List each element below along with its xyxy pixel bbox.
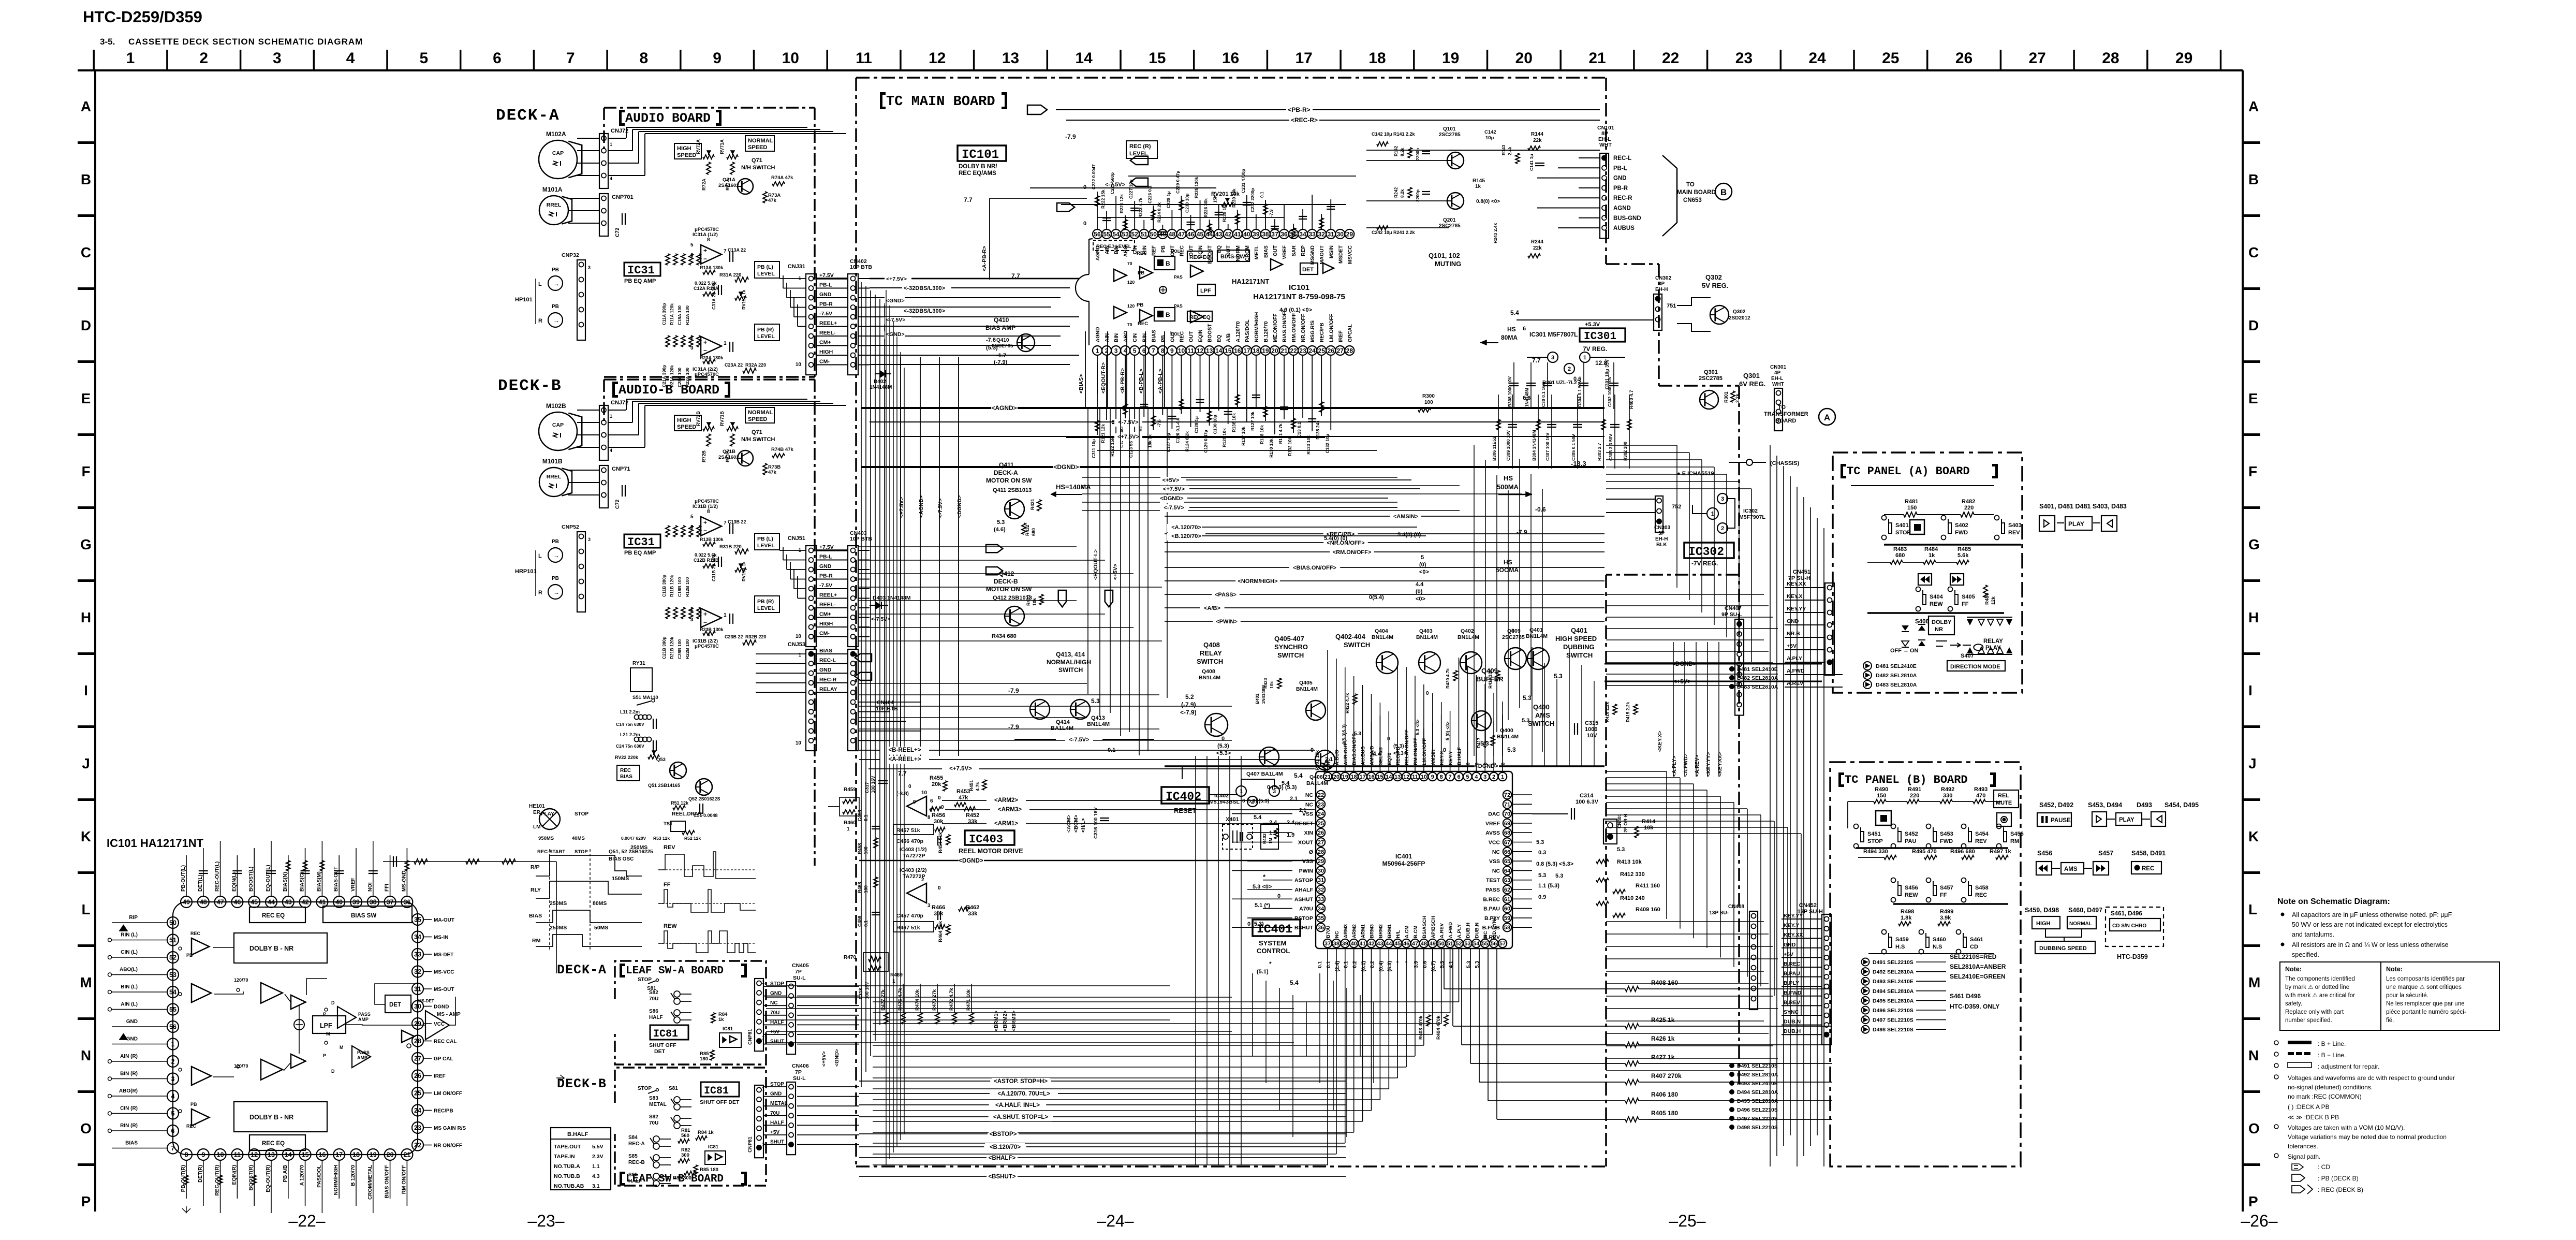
svg-text:6: 6 — [493, 50, 502, 67]
svg-text:1: 1 — [1096, 347, 1099, 354]
svg-text:MSGND: MSGND — [1310, 245, 1316, 265]
svg-text:17: 17 — [1296, 50, 1313, 67]
svg-text:1000: 1000 — [1585, 726, 1597, 733]
svg-text:3: 3 — [928, 903, 931, 909]
svg-text:12: 12 — [1403, 774, 1409, 780]
pin row IC101 bottom (pins 1-28) — [1093, 346, 1102, 355]
svg-text:R/P: R/P — [531, 864, 540, 870]
svg-text:22k: 22k — [1533, 138, 1542, 143]
svg-text:1: 1 — [798, 652, 801, 658]
wire — [858, 288, 870, 289]
border frame: left edge — [94, 70, 96, 1212]
D403 diode — [870, 605, 888, 606]
svg-text:<RM.ON/OFF>: <RM.ON/OFF> — [1333, 549, 1372, 556]
resistor R71A — [730, 162, 734, 174]
transistor Q53 — [670, 762, 686, 779]
svg-text:50: 50 — [169, 920, 176, 927]
wire — [858, 569, 870, 570]
svg-text:<DGND>: <DGND> — [956, 495, 963, 518]
svg-text:30: 30 — [1337, 230, 1344, 238]
capacitor C23A — [729, 614, 730, 624]
svg-text:K: K — [2248, 828, 2259, 844]
svg-text:R400 4.7: R400 4.7 — [1629, 390, 1634, 409]
svg-text:RIN: RIN — [1142, 333, 1147, 342]
svg-text:6: 6 — [171, 1128, 175, 1135]
svg-text:28: 28 — [2102, 50, 2119, 67]
svg-text:AUDIO BOARD: AUDIO BOARD — [625, 111, 711, 126]
svg-text:13P SU-: 13P SU- — [1709, 910, 1729, 916]
svg-text:IC101: IC101 — [1289, 283, 1309, 292]
wire — [858, 617, 870, 618]
svg-text:MSDET: MSDET — [1338, 245, 1344, 264]
svg-text:1: 1 — [1501, 774, 1504, 780]
svg-text:G: G — [2248, 536, 2260, 552]
svg-text:+: + — [703, 339, 707, 346]
capacitor C23A — [729, 342, 730, 352]
svg-text:C311 10μ: C311 10μ — [1091, 439, 1096, 458]
board outline [TC MAIN BOARD] — [856, 77, 1606, 79]
svg-text:RV11B 1k: RV11B 1k — [741, 561, 746, 581]
svg-text:3: 3 — [1114, 347, 1118, 354]
wire — [1280, 580, 1605, 581]
svg-text:<A/B>: <A/B> — [1204, 605, 1220, 611]
svg-text:5.4: 5.4 — [1290, 979, 1299, 986]
svg-text:M101A: M101A — [542, 186, 563, 193]
box REL MUTE — [1994, 790, 2019, 808]
svg-text:EH-H: EH-H — [1655, 287, 1668, 293]
board outline [AUDIO-B BOARD] — [604, 378, 815, 381]
svg-text:C223 560p: C223 560p — [1110, 172, 1115, 194]
svg-text:-7.9: -7.9 — [1269, 209, 1274, 217]
svg-text:LEVEL: LEVEL — [757, 543, 775, 549]
svg-text:pour la sécurité.: pour la sécurité. — [2386, 993, 2428, 999]
svg-text:TC PANEL (A) BOARD: TC PANEL (A) BOARD — [1847, 465, 1970, 478]
svg-text:R144: R144 — [1531, 132, 1543, 137]
svg-text:R453: R453 — [956, 789, 970, 795]
svg-text:10V: 10V — [1587, 733, 1597, 739]
svg-text:REC/PB: REC/PB — [434, 1108, 453, 1114]
svg-text:PASS: PASS — [357, 1050, 370, 1055]
svg-text:25: 25 — [1318, 821, 1324, 827]
IC402 label — [1161, 787, 1209, 804]
op-amp/pin row IC101 top (pins 56-29) — [1093, 229, 1102, 239]
signal arrows mid — [986, 545, 1003, 552]
svg-text:Q411: Q411 — [999, 461, 1014, 469]
svg-text:HIGH: HIGH — [677, 145, 691, 152]
IC101 label — [958, 145, 1006, 161]
svg-text:23: 23 — [1299, 347, 1306, 354]
svg-text:R51 12k: R51 12k — [671, 800, 689, 806]
wire bundle: verticals between band and IC401 right — [1532, 647, 1533, 766]
svg-text:REC/PB: REC/PB — [1395, 747, 1401, 765]
DGND bus — [859, 860, 1315, 862]
svg-text:28: 28 — [414, 1038, 421, 1045]
svg-text:BS/ASCH: BS/ASCH — [1422, 916, 1427, 938]
svg-text:Q408: Q408 — [1202, 668, 1215, 675]
svg-text:REC: REC — [2142, 866, 2154, 872]
svg-text:RELAY.ON/OFF: RELAY.ON/OFF — [1404, 730, 1410, 765]
svg-text:20: 20 — [1515, 50, 1533, 67]
svg-text:D498 SEL2210S: D498 SEL2210S — [1873, 1027, 1913, 1033]
svg-text:SU-L: SU-L — [793, 1075, 806, 1082]
svg-text:BN1L4M: BN1L4M — [1416, 634, 1438, 640]
svg-text:3: 3 — [1721, 496, 1724, 502]
wire — [797, 1086, 859, 1087]
svg-text:AMS: AMS — [1535, 711, 1550, 719]
wire — [1368, 542, 1605, 543]
svg-text:10: 10 — [1421, 774, 1427, 780]
svg-text:5.3: 5.3 — [997, 519, 1005, 526]
svg-text:GND: GND — [1613, 176, 1627, 182]
svg-text:no-signal (detuned) conditions: no-signal (detuned) conditions. — [2288, 1084, 2373, 1091]
svg-text:0: 0 — [938, 885, 941, 891]
svg-text:NOI: NOI — [367, 882, 373, 892]
svg-text:NC: NC — [1492, 849, 1500, 855]
svg-text:11: 11 — [1412, 774, 1418, 780]
svg-text:C130 10μ: C130 10μ — [1213, 415, 1218, 434]
svg-text:R414: R414 — [1642, 819, 1656, 825]
svg-text:EQ-OUT(L): EQ-OUT(L) — [266, 865, 271, 892]
wire — [797, 1096, 859, 1097]
svg-text:HTC-D359: HTC-D359 — [2117, 953, 2148, 960]
svg-text:39: 39 — [1342, 941, 1348, 947]
legend VOM — [2274, 1125, 2278, 1129]
inner box LPF — [313, 1016, 346, 1033]
svg-text:15: 15 — [1377, 774, 1383, 780]
svg-text:<+7.5V>: <+7.5V> — [949, 766, 972, 772]
svg-text:38: 38 — [1262, 230, 1269, 238]
svg-text:2SC2785: 2SC2785 — [1439, 132, 1461, 138]
svg-text:C72: C72 — [615, 227, 621, 237]
svg-text:26: 26 — [1955, 50, 1973, 67]
svg-text:3: 3 — [171, 1075, 175, 1083]
svg-text:20k: 20k — [932, 781, 941, 787]
svg-text:A.120/70: A.120/70 — [1235, 321, 1241, 342]
bullet 2 — [2281, 943, 2285, 946]
svg-text:120/70: 120/70 — [234, 1063, 248, 1069]
svg-text:S405: S405 — [1962, 594, 1975, 600]
svg-text:C141 1μ: C141 1μ — [1529, 154, 1534, 171]
svg-text:: PB (DECK B): : PB (DECK B) — [2318, 1175, 2359, 1182]
svg-text:D496 SEL2210S: D496 SEL2210S — [1737, 1107, 1778, 1113]
svg-text:C314: C314 — [1580, 793, 1594, 799]
svg-text:39: 39 — [1253, 230, 1260, 238]
svg-text:33: 33 — [414, 951, 421, 958]
svg-text:5: 5 — [690, 514, 694, 520]
+7.5V bus — [870, 436, 1605, 437]
svg-text:20: 20 — [1333, 774, 1339, 780]
svg-text:9: 9 — [713, 50, 722, 67]
svg-text:NC: NC — [1483, 931, 1489, 938]
svg-text:XOUT: XOUT — [1298, 840, 1314, 846]
svg-text:N.S: N.S — [1933, 944, 1942, 950]
svg-text:<A.120/70. 70U=L>: <A.120/70. 70U=L> — [997, 1091, 1050, 1097]
svg-text:KEY.Y: KEY.Y — [1448, 751, 1454, 765]
svg-text:CN401: CN401 — [1617, 814, 1622, 828]
svg-text:49: 49 — [1430, 941, 1436, 947]
header TC MAIN BOARD — [880, 92, 886, 109]
svg-text:CM+: CM+ — [819, 340, 831, 346]
svg-text:STOP: STOP — [1895, 530, 1911, 536]
svg-text:NC: NC — [1305, 801, 1314, 808]
svg-text:R32A 220: R32A 220 — [745, 362, 766, 368]
svg-text:HIGH SPEED: HIGH SPEED — [1555, 635, 1597, 643]
svg-text:0: 0 — [1426, 691, 1429, 696]
svg-text:2SC2785: 2SC2785 — [1502, 634, 1525, 640]
svg-text:→: → — [553, 280, 560, 287]
svg-text:0 (5.3): 0 (5.3) — [1247, 921, 1264, 927]
legend voltages — [2274, 1075, 2278, 1079]
wires CN101 area — [1366, 150, 1449, 151]
svg-text:40MS: 40MS — [572, 836, 585, 841]
transistor Q52 — [696, 779, 712, 795]
svg-text:7.7: 7.7 — [898, 770, 907, 777]
svg-text:-7.5V: -7.5V — [819, 582, 832, 589]
svg-text:AUB.OUT: AUB.OUT — [1343, 743, 1349, 765]
svg-text:NC: NC — [1492, 868, 1500, 874]
svg-text:70: 70 — [1127, 322, 1132, 327]
svg-text:Q402-404: Q402-404 — [1335, 633, 1366, 640]
svg-text:5.3: 5.3 — [1091, 697, 1100, 705]
svg-text:R127 10k: R127 10k — [1250, 412, 1255, 431]
svg-text:REW: REW — [1930, 601, 1943, 607]
svg-text:7: 7 — [724, 520, 727, 526]
svg-text:0.1: 0.1 — [1344, 961, 1349, 968]
switch dots inner — [179, 947, 182, 950]
svg-text:CAP: CAP — [552, 422, 564, 428]
svg-text:21: 21 — [1588, 50, 1606, 67]
svg-text:7: 7 — [1152, 347, 1155, 354]
svg-text:PB: PB — [552, 539, 559, 545]
svg-text:H/L: H/L — [1395, 930, 1401, 939]
wire — [859, 1157, 987, 1158]
svg-text:PAU: PAU — [1905, 838, 1916, 844]
svg-text:TC MAIN BOARD: TC MAIN BOARD — [886, 94, 995, 110]
svg-text:14: 14 — [1386, 774, 1392, 780]
svg-text:B: B — [1166, 260, 1170, 267]
svg-text:29: 29 — [2175, 50, 2192, 67]
svg-text:IC403: IC403 — [969, 833, 1003, 846]
svg-text:30k: 30k — [934, 911, 944, 917]
switch S403 — [1995, 516, 1999, 520]
misc wires inside IC101 — [1097, 362, 1098, 393]
svg-text:53: 53 — [1122, 230, 1129, 238]
svg-text:–23–: –23– — [527, 1212, 564, 1230]
svg-text:+5.3V: +5.3V — [1585, 322, 1600, 328]
svg-text:R406 180: R406 180 — [1651, 1091, 1678, 1098]
svg-text:Q53: Q53 — [656, 757, 666, 763]
svg-text:2: 2 — [1492, 774, 1495, 780]
connector CNJ31 — [806, 274, 816, 375]
svg-text:1: 1 — [847, 826, 850, 832]
svg-text:PB (L): PB (L) — [757, 264, 773, 270]
svg-text:S86: S86 — [628, 1172, 638, 1178]
svg-text:C459: C459 — [857, 915, 862, 927]
svg-text:D: D — [81, 317, 91, 333]
svg-text:REEL+: REEL+ — [819, 592, 837, 599]
svg-text:M101B: M101B — [542, 458, 563, 465]
svg-text:0: 0 — [1500, 763, 1506, 765]
svg-text:R142: R142 — [1393, 145, 1399, 156]
inner blocks of IC101 — [1154, 256, 1175, 270]
svg-text:Les composants identifiés p: Les composants identifiés par — [2386, 976, 2465, 982]
svg-text:R22B 100: R22B 100 — [685, 639, 690, 659]
svg-text:10k: 10k — [1269, 681, 1274, 689]
svg-text:REC: REC — [186, 1124, 197, 1129]
svg-text:<A.PLY>: <A.PLY> — [1672, 756, 1677, 777]
svg-text:OUT: OUT — [1273, 245, 1278, 256]
svg-text:MSVCC: MSVCC — [1347, 245, 1353, 264]
svg-text:EQ-OUT(R): EQ-OUT(R) — [266, 1165, 271, 1192]
svg-text:Q101, 102: Q101, 102 — [1429, 252, 1460, 259]
svg-text:MS-DET: MS-DET — [418, 999, 434, 1003]
svg-text:R474 10k: R474 10k — [915, 989, 920, 1011]
svg-text:DAC: DAC — [1488, 811, 1500, 818]
svg-text:R31A 220: R31A 220 — [719, 272, 741, 278]
svg-text:BA1L4M: BA1L4M — [1306, 780, 1328, 786]
svg-text:CNP71: CNP71 — [612, 466, 630, 472]
svg-text:Voltages are taken with a VOM: Voltages are taken with a VOM (10 MΩ/V). — [2288, 1124, 2405, 1131]
svg-text:5.3: 5.3 — [1536, 839, 1544, 845]
wire — [858, 297, 870, 298]
svg-text:R464 51k: R464 51k — [938, 921, 944, 942]
svg-text:5.3: 5.3 — [1554, 673, 1563, 680]
wire bundle: panel A feed diagonals — [1676, 445, 1677, 588]
play legend B — [2092, 812, 2107, 826]
svg-text:19: 19 — [1442, 50, 1459, 67]
svg-text:Q410: Q410 — [994, 316, 1009, 324]
resistor R71A — [730, 434, 734, 446]
svg-text:DUB.H: DUB.H — [1465, 923, 1471, 938]
svg-text:EH-H: EH-H — [1655, 536, 1668, 542]
svg-text:24: 24 — [1808, 50, 1826, 67]
svg-text:AGND: AGND — [1095, 327, 1101, 342]
svg-text:<+7.5V>: <+7.5V> — [886, 276, 907, 282]
stop square icon B — [1876, 811, 1891, 825]
wire bundle deck top — [608, 410, 626, 411]
svg-text:NR.ON/OFF: NR.ON/OFF — [1301, 314, 1306, 342]
svg-text:C305 0.1 50V: C305 0.1 50V — [1571, 434, 1576, 461]
svg-text:40: 40 — [1351, 941, 1357, 947]
svg-text:64: 64 — [1504, 868, 1511, 874]
svg-text:29: 29 — [414, 1020, 421, 1028]
svg-text:CN404: CN404 — [877, 699, 894, 706]
svg-text:B: B — [1166, 311, 1170, 318]
header TC PANEL (A) BOARD — [1841, 464, 1846, 478]
svg-text:R466: R466 — [932, 905, 945, 911]
svg-text:3P: 3P — [1658, 531, 1665, 536]
svg-text:R410 240: R410 240 — [1620, 895, 1645, 901]
svg-text:RV72B: RV72B — [696, 411, 701, 426]
svg-text:13: 13 — [1206, 347, 1213, 354]
svg-text:RM: RM — [2010, 838, 2019, 844]
connector CN303 — [1655, 496, 1663, 532]
svg-text:CN301: CN301 — [1770, 364, 1787, 370]
svg-text:4: 4 — [610, 176, 612, 181]
svg-text:19: 19 — [1342, 774, 1348, 780]
svg-text:NORMAL: NORMAL — [2069, 921, 2092, 927]
svg-text:Voltages and waveforms are: Voltages and waveforms are dc with respe… — [2288, 1074, 2455, 1082]
svg-text:330: 330 — [1943, 793, 1952, 799]
box BIAS-SW — [1217, 250, 1249, 261]
svg-text:AIN (L): AIN (L) — [121, 1002, 138, 1008]
svg-text:D483 SEL2810A: D483 SEL2810A — [1737, 684, 1778, 690]
svg-text:SWITCH: SWITCH — [1566, 651, 1593, 659]
svg-text:AMSIN: AMSIN — [1431, 749, 1436, 765]
svg-text:S460, D497: S460, D497 — [2068, 907, 2102, 914]
svg-text:N: N — [81, 1047, 91, 1063]
svg-text:C11B 390p: C11B 390p — [661, 575, 667, 597]
resistor R14A — [703, 292, 715, 296]
svg-text:GND: GND — [1787, 618, 1799, 624]
svg-text:DOLBY: DOLBY — [1932, 619, 1952, 625]
svg-text:MUTING: MUTING — [1435, 260, 1461, 268]
svg-text:NORMAL: NORMAL — [748, 410, 773, 416]
svg-text:IC81: IC81 — [723, 1026, 733, 1032]
svg-text:10: 10 — [796, 740, 802, 746]
svg-text:<AGND>: <AGND> — [918, 495, 924, 518]
svg-text:2SD2012: 2SD2012 — [1729, 315, 1750, 321]
svg-text:SPEED: SPEED — [677, 424, 696, 430]
wire — [1241, 621, 1605, 622]
svg-text:*: * — [1269, 960, 1272, 968]
svg-text:SPEED: SPEED — [748, 144, 767, 151]
svg-text:25: 25 — [1882, 50, 1899, 67]
svg-text:5.4: 5.4 — [1510, 309, 1519, 316]
svg-text:HIGH: HIGH — [2036, 921, 2051, 927]
svg-text:DUBBING: DUBBING — [1563, 643, 1595, 651]
svg-text:SPEED: SPEED — [677, 152, 696, 158]
svg-text:<PASS>: <PASS> — [1215, 592, 1237, 598]
svg-text:R13A 130k: R13A 130k — [700, 265, 724, 270]
svg-text:R420 4.7k: R420 4.7k — [1445, 668, 1450, 689]
svg-text:42: 42 — [302, 899, 309, 906]
svg-text:<A.REV>: <A.REV> — [1695, 755, 1700, 777]
svg-text:C303 3.3 50V: C303 3.3 50V — [1608, 434, 1613, 461]
connector CNP32 — [577, 532, 585, 612]
wire bundle: panel B feed diagonals — [1666, 771, 1667, 919]
svg-text:REC-OUT(L): REC-OUT(L) — [215, 862, 220, 892]
svg-text:AIN (R): AIN (R) — [120, 1054, 138, 1059]
svg-text:by mark ⚠ or dotted line: by mark ⚠ or dotted line — [2285, 984, 2349, 990]
lower op-amp — [907, 883, 926, 903]
svg-text:27: 27 — [2029, 50, 2046, 67]
svg-text:BLK: BLK — [1656, 542, 1667, 548]
svg-text:HALF: HALF — [649, 1015, 663, 1020]
svg-text:DET: DET — [389, 1002, 401, 1008]
svg-text:PAS/DOL: PAS/DOL — [1245, 319, 1250, 342]
svg-text:43: 43 — [1215, 230, 1223, 238]
svg-text:12.8: 12.8 — [1595, 359, 1608, 367]
svg-text:PB: PB — [1160, 245, 1166, 253]
svg-text:3.9: 3.9 — [1414, 961, 1419, 968]
svg-text:2SC2785: 2SC2785 — [992, 343, 1013, 349]
svg-text:R11A 120k: R11A 120k — [669, 303, 674, 325]
svg-text:<KEY.YY>: <KEY.YY> — [1706, 752, 1712, 777]
svg-text:BN1L4M: BN1L4M — [1497, 734, 1519, 740]
svg-text:L: L — [81, 901, 90, 917]
svg-text:H: H — [81, 609, 91, 625]
svg-text:C13A 22: C13A 22 — [728, 247, 746, 253]
svg-text:HS: HS — [1507, 326, 1516, 333]
svg-text:0: 0 — [1511, 628, 1514, 634]
svg-text:with mark ⚠ are critical for: with mark ⚠ are critical for — [2285, 993, 2355, 999]
svg-text:5.4(0) (0): 5.4(0) (0) — [1397, 532, 1421, 538]
svg-text:R407 270k: R407 270k — [1651, 1072, 1682, 1079]
svg-text:BIAS AMP: BIAS AMP — [985, 324, 1015, 331]
box PB (L) LEVEL — [755, 261, 779, 278]
left vertical bus bundle — [861, 282, 862, 1087]
